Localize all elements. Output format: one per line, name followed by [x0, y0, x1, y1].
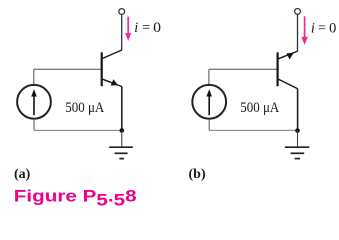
figure caption	[14, 187, 137, 210]
current arrow i (magenta, circuit a)	[125, 17, 131, 41]
wire: terminal to collector elbow (a)	[121, 14, 123, 50]
wire: left rail bottom (a)	[33, 119, 35, 131]
svg-text:(a): (a)	[14, 167, 31, 182]
terminal node (open circle, circuit a)	[119, 9, 125, 15]
svg-text:i=0: i=0	[311, 20, 336, 36]
node junction dot (b)	[295, 128, 300, 133]
svg-text:500 μA: 500 μA	[240, 100, 280, 116]
terminal node (open circle, circuit b)	[295, 9, 301, 15]
wire: junction to ground stub (a)	[121, 131, 123, 147]
wire: base wire (a)	[34, 68, 101, 70]
current source I2 (500 uA, circuit b)	[192, 85, 226, 119]
current arrow i (magenta, circuit b)	[301, 16, 307, 45]
wire: junction to ground stub (b)	[297, 131, 299, 147]
wire: left rail top (b)	[208, 69, 210, 85]
wire: terminal to emitter elbow (b)	[297, 14, 299, 51]
transistor Q2 (npn, emitter up)	[278, 51, 298, 89]
wire: base wire (b)	[209, 68, 277, 70]
wire: left rail top (a)	[33, 69, 35, 85]
wire: bottom wire (b)	[209, 129, 297, 131]
wire: emitter down to ground (a)	[121, 87, 123, 131]
transistor Q1 (npn, emitter down)	[102, 50, 122, 87]
wire: collector down to junction (b)	[297, 89, 299, 131]
svg-text:500 μA: 500 μA	[65, 100, 105, 116]
node junction dot (a)	[120, 128, 125, 133]
current source I1 (500 uA, circuit a)	[17, 85, 51, 119]
wire: bottom wire (a)	[34, 129, 122, 131]
ground (circuit a)	[109, 147, 133, 158]
wire: left rail bottom (b)	[208, 119, 210, 131]
svg-text:(b): (b)	[189, 167, 206, 182]
ground (circuit b)	[285, 147, 310, 158]
